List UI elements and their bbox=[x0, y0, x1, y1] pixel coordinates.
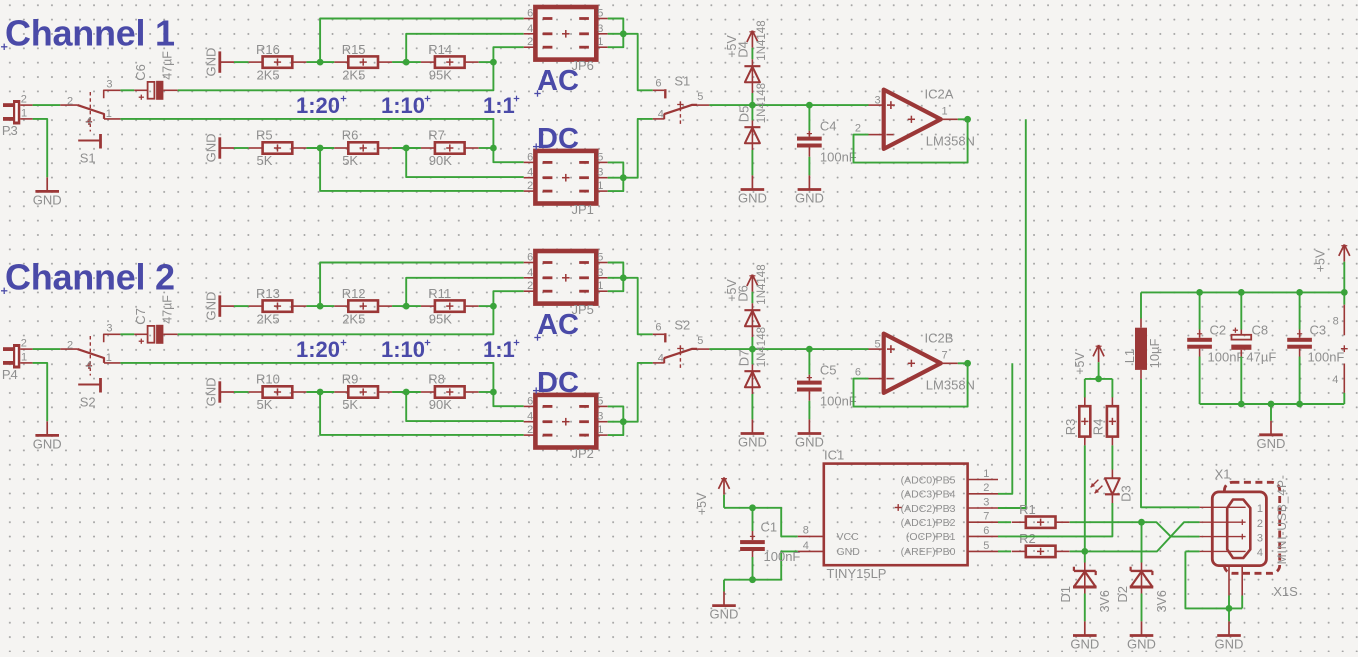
svg-text:2: 2 bbox=[527, 424, 533, 436]
svg-text:DC: DC bbox=[537, 123, 579, 155]
svg-text:GND: GND bbox=[738, 190, 767, 205]
svg-text:5: 5 bbox=[697, 91, 703, 103]
svg-text:6: 6 bbox=[527, 151, 533, 163]
svg-text:+5V: +5V bbox=[1313, 249, 1327, 272]
svg-text:GND: GND bbox=[795, 190, 824, 205]
svg-text:5K: 5K bbox=[257, 153, 273, 168]
svg-text:X1: X1 bbox=[1215, 467, 1231, 482]
svg-text:1N4148: 1N4148 bbox=[756, 20, 768, 60]
svg-text:D7: D7 bbox=[736, 350, 751, 367]
svg-text:C7: C7 bbox=[133, 308, 148, 325]
svg-text:2: 2 bbox=[527, 280, 533, 292]
svg-text:2: 2 bbox=[67, 340, 73, 352]
svg-text:C2: C2 bbox=[1210, 322, 1227, 337]
svg-text:100nF: 100nF bbox=[820, 150, 857, 165]
svg-text:1: 1 bbox=[597, 180, 603, 192]
svg-text:D5: D5 bbox=[736, 106, 751, 123]
svg-text:1:1: 1:1 bbox=[483, 93, 515, 118]
svg-text:D3: D3 bbox=[1118, 485, 1133, 502]
svg-text:6: 6 bbox=[655, 78, 661, 90]
svg-text:7: 7 bbox=[983, 511, 989, 523]
svg-text:1: 1 bbox=[106, 108, 112, 120]
svg-text:R8: R8 bbox=[428, 372, 445, 387]
svg-text:5: 5 bbox=[597, 151, 603, 163]
svg-text:2K5: 2K5 bbox=[257, 311, 280, 326]
svg-text:+5V: +5V bbox=[695, 492, 709, 515]
svg-text:6: 6 bbox=[527, 395, 533, 407]
svg-text:1:10: 1:10 bbox=[381, 337, 425, 362]
svg-text:1N4148: 1N4148 bbox=[756, 327, 768, 367]
svg-text:D2: D2 bbox=[1115, 586, 1130, 603]
svg-text:1: 1 bbox=[597, 36, 603, 48]
svg-text:4: 4 bbox=[527, 167, 533, 179]
svg-text:3: 3 bbox=[597, 267, 603, 279]
svg-text:7: 7 bbox=[942, 350, 948, 362]
svg-text:1: 1 bbox=[942, 106, 948, 118]
svg-text:Channel 2: Channel 2 bbox=[5, 257, 175, 298]
svg-text:5: 5 bbox=[874, 339, 880, 351]
svg-text:4: 4 bbox=[1257, 547, 1263, 559]
svg-text:1: 1 bbox=[597, 280, 603, 292]
svg-text:3: 3 bbox=[106, 79, 112, 91]
svg-text:R14: R14 bbox=[428, 42, 452, 57]
svg-text:3: 3 bbox=[597, 411, 603, 423]
svg-text:4: 4 bbox=[658, 352, 664, 364]
svg-text:L1: L1 bbox=[1122, 349, 1137, 363]
svg-text:4: 4 bbox=[803, 540, 809, 552]
svg-text:1: 1 bbox=[21, 351, 27, 363]
svg-text:GND: GND bbox=[1070, 636, 1099, 651]
svg-text:2: 2 bbox=[1257, 518, 1263, 530]
svg-text:90K: 90K bbox=[429, 397, 452, 412]
svg-text:95K: 95K bbox=[429, 311, 452, 326]
svg-text:R12: R12 bbox=[342, 286, 366, 301]
svg-text:VCC: VCC bbox=[837, 531, 860, 543]
svg-text:GND: GND bbox=[204, 378, 219, 407]
svg-text:100nF: 100nF bbox=[820, 394, 857, 409]
svg-text:1N4148: 1N4148 bbox=[756, 83, 768, 123]
svg-text:(ADC2)PB3: (ADC2)PB3 bbox=[901, 503, 956, 515]
svg-text:3: 3 bbox=[597, 23, 603, 35]
svg-text:6: 6 bbox=[983, 525, 989, 537]
svg-text:4: 4 bbox=[527, 267, 533, 279]
svg-text:(ADC1)PB2: (ADC1)PB2 bbox=[901, 517, 956, 529]
svg-text:S2: S2 bbox=[80, 394, 96, 409]
svg-text:1: 1 bbox=[106, 352, 112, 364]
svg-text:3: 3 bbox=[106, 323, 112, 335]
svg-text:C1: C1 bbox=[761, 520, 778, 535]
svg-text:3: 3 bbox=[597, 167, 603, 179]
svg-text:Channel 1: Channel 1 bbox=[5, 13, 175, 54]
svg-text:TINY15LP: TINY15LP bbox=[827, 566, 887, 581]
svg-text:5: 5 bbox=[697, 335, 703, 347]
svg-text:S1: S1 bbox=[80, 150, 96, 165]
svg-text:R4: R4 bbox=[1091, 419, 1106, 436]
svg-text:DC: DC bbox=[537, 367, 579, 399]
svg-text:MINI-USB_4P-: MINI-USB_4P- bbox=[1275, 474, 1289, 564]
svg-text:C4: C4 bbox=[820, 118, 837, 133]
svg-text:4: 4 bbox=[1332, 374, 1338, 386]
svg-text:5K: 5K bbox=[342, 153, 358, 168]
svg-text:GND: GND bbox=[1215, 636, 1244, 651]
svg-text:P3: P3 bbox=[2, 123, 18, 138]
svg-text:GND: GND bbox=[33, 192, 62, 207]
svg-text:4: 4 bbox=[527, 411, 533, 423]
svg-text:IC2B: IC2B bbox=[925, 331, 954, 346]
svg-text:IC1: IC1 bbox=[824, 448, 844, 463]
svg-text:2: 2 bbox=[983, 482, 989, 494]
svg-text:R2: R2 bbox=[1019, 531, 1036, 546]
svg-text:(AREF)PB0: (AREF)PB0 bbox=[901, 546, 956, 558]
svg-text:1: 1 bbox=[983, 468, 989, 480]
svg-text:D4: D4 bbox=[735, 41, 750, 58]
svg-text:C3: C3 bbox=[1310, 322, 1327, 337]
svg-text:2K5: 2K5 bbox=[342, 311, 365, 326]
svg-text:JP1: JP1 bbox=[572, 202, 594, 217]
svg-text:GND: GND bbox=[1127, 636, 1156, 651]
svg-text:2: 2 bbox=[21, 338, 27, 350]
svg-text:100nF: 100nF bbox=[764, 549, 801, 564]
svg-text:8: 8 bbox=[1333, 315, 1339, 327]
svg-text:4: 4 bbox=[527, 23, 533, 35]
svg-text:3: 3 bbox=[983, 496, 989, 508]
svg-text:1: 1 bbox=[597, 424, 603, 436]
svg-text:3V6: 3V6 bbox=[1098, 590, 1112, 612]
svg-text:5: 5 bbox=[597, 395, 603, 407]
svg-text:6: 6 bbox=[527, 252, 533, 264]
svg-text:GND: GND bbox=[1257, 436, 1286, 451]
svg-text:AC: AC bbox=[537, 65, 579, 97]
svg-text:8: 8 bbox=[803, 525, 809, 537]
svg-text:R7: R7 bbox=[428, 128, 445, 143]
svg-text:D6: D6 bbox=[735, 285, 750, 302]
svg-text:GND: GND bbox=[204, 48, 219, 77]
svg-text:5: 5 bbox=[597, 252, 603, 264]
svg-text:3: 3 bbox=[1257, 532, 1263, 544]
svg-text:JP2: JP2 bbox=[572, 446, 594, 461]
svg-text:2: 2 bbox=[527, 36, 533, 48]
svg-text:(OCP)PB1: (OCP)PB1 bbox=[906, 531, 956, 543]
svg-text:47µF: 47µF bbox=[161, 295, 175, 324]
svg-text:3V6: 3V6 bbox=[1155, 590, 1169, 612]
svg-text:5: 5 bbox=[983, 540, 989, 552]
svg-text:R5: R5 bbox=[256, 128, 273, 143]
svg-text:(ADC0)PB5: (ADC0)PB5 bbox=[901, 474, 956, 486]
svg-text:+5V: +5V bbox=[1073, 352, 1087, 375]
svg-text:2: 2 bbox=[527, 180, 533, 192]
svg-text:1:10: 1:10 bbox=[381, 93, 425, 118]
svg-text:2: 2 bbox=[855, 123, 861, 135]
svg-text:R10: R10 bbox=[256, 372, 280, 387]
svg-text:6: 6 bbox=[655, 322, 661, 334]
svg-text:95K: 95K bbox=[429, 67, 452, 82]
svg-text:100nF: 100nF bbox=[1208, 350, 1245, 365]
svg-text:47µF: 47µF bbox=[1246, 350, 1276, 365]
svg-text:IC2A: IC2A bbox=[925, 87, 954, 102]
svg-text:6: 6 bbox=[527, 8, 533, 20]
svg-text:1: 1 bbox=[21, 107, 27, 119]
svg-text:R3: R3 bbox=[1063, 419, 1078, 436]
svg-text:1: 1 bbox=[1257, 503, 1263, 515]
svg-text:5K: 5K bbox=[342, 397, 358, 412]
svg-text:R1: R1 bbox=[1019, 502, 1036, 517]
svg-text:GND: GND bbox=[33, 436, 62, 451]
svg-text:90K: 90K bbox=[429, 153, 452, 168]
svg-text:1:20: 1:20 bbox=[296, 93, 340, 118]
svg-text:AC: AC bbox=[537, 309, 579, 341]
svg-text:S2: S2 bbox=[674, 318, 690, 333]
svg-text:6: 6 bbox=[855, 367, 861, 379]
svg-text:2: 2 bbox=[67, 96, 73, 108]
svg-text:R16: R16 bbox=[256, 42, 280, 57]
svg-text:2: 2 bbox=[21, 94, 27, 106]
svg-text:4: 4 bbox=[86, 360, 92, 372]
svg-text:10µF: 10µF bbox=[1147, 338, 1162, 368]
svg-text:D1: D1 bbox=[1058, 586, 1073, 603]
svg-text:5: 5 bbox=[597, 8, 603, 20]
svg-text:1:1: 1:1 bbox=[483, 337, 515, 362]
svg-text:R15: R15 bbox=[342, 42, 366, 57]
svg-text:P4: P4 bbox=[2, 367, 18, 382]
svg-text:47µF: 47µF bbox=[161, 51, 175, 80]
svg-text:3: 3 bbox=[874, 95, 880, 107]
svg-text:GND: GND bbox=[795, 434, 824, 449]
svg-text:GND: GND bbox=[204, 134, 219, 163]
svg-text:1N4148: 1N4148 bbox=[756, 264, 768, 304]
svg-text:C8: C8 bbox=[1252, 322, 1269, 337]
svg-text:R9: R9 bbox=[342, 372, 359, 387]
svg-text:2K5: 2K5 bbox=[257, 67, 280, 82]
svg-text:GND: GND bbox=[204, 292, 219, 321]
svg-text:100nF: 100nF bbox=[1308, 350, 1345, 365]
svg-text:4: 4 bbox=[658, 108, 664, 120]
svg-text:S1: S1 bbox=[674, 74, 690, 89]
svg-text:R13: R13 bbox=[256, 286, 280, 301]
svg-text:C5: C5 bbox=[820, 362, 837, 377]
svg-text:GND: GND bbox=[837, 546, 861, 558]
svg-text:GND: GND bbox=[710, 607, 739, 622]
svg-text:X1S: X1S bbox=[1273, 584, 1298, 599]
svg-text:2K5: 2K5 bbox=[342, 67, 365, 82]
svg-text:(ADC3)PB4: (ADC3)PB4 bbox=[901, 489, 956, 501]
svg-text:5K: 5K bbox=[257, 397, 273, 412]
svg-text:R11: R11 bbox=[428, 286, 451, 301]
svg-text:1:20: 1:20 bbox=[296, 337, 340, 362]
svg-text:R6: R6 bbox=[342, 128, 359, 143]
svg-text:4: 4 bbox=[86, 116, 92, 128]
svg-text:C6: C6 bbox=[133, 64, 148, 81]
svg-text:GND: GND bbox=[738, 434, 767, 449]
